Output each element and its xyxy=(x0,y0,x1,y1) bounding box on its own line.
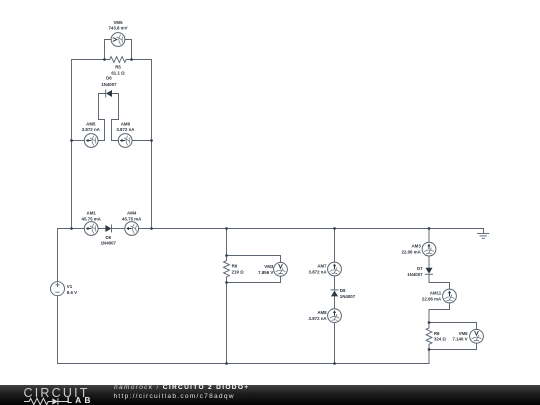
wire D8 to AM8 xyxy=(334,296,336,308)
svg-text:45.75 mA: 45.75 mA xyxy=(122,217,142,222)
logo LAB text xyxy=(67,396,94,405)
svg-text:61.1 Ω: 61.1 Ω xyxy=(111,71,125,76)
wire top loop left vertical xyxy=(72,60,105,229)
svg-text:8.6 V: 8.6 V xyxy=(67,290,77,295)
svg-text:3.872 nA: 3.872 nA xyxy=(82,127,101,132)
svg-text:VM6: VM6 xyxy=(459,331,469,336)
svg-text:D8: D8 xyxy=(340,288,346,293)
node top loop right xyxy=(150,227,153,230)
resistor R6 xyxy=(224,256,230,283)
node AM7 column top xyxy=(333,227,336,230)
svg-text:R8: R8 xyxy=(434,331,440,336)
footer info line 2 xyxy=(114,393,235,400)
node R8 bottom tap xyxy=(428,348,431,351)
logo resistor-diode mark xyxy=(24,397,69,405)
wire voltmeter VM6 bracket xyxy=(429,323,477,350)
wire main row right long segment xyxy=(139,229,484,234)
svg-text:7.146 V: 7.146 V xyxy=(452,337,467,342)
svg-text:AM7: AM7 xyxy=(317,264,327,269)
source V1 xyxy=(51,282,65,296)
resistor R8 xyxy=(426,323,432,350)
svg-text:743.8 mV: 743.8 mV xyxy=(108,26,127,31)
svg-text:R6: R6 xyxy=(232,263,238,268)
svg-text:3.872 nA: 3.872 nA xyxy=(116,127,135,132)
wire V1 to bottom row xyxy=(58,296,430,364)
svg-text:R5: R5 xyxy=(115,65,121,70)
node R5 left tap xyxy=(103,58,106,61)
node R6 column bottom xyxy=(225,362,228,365)
svg-text:AM4: AM4 xyxy=(127,211,137,216)
svg-text:22.06 mA: 22.06 mA xyxy=(402,250,422,255)
svg-text:AM11: AM11 xyxy=(430,291,442,296)
node R6 bottom tap xyxy=(225,281,228,284)
wire D6 to AM6 stub xyxy=(112,94,119,141)
svg-text:45.75 mA: 45.75 mA xyxy=(82,217,102,222)
node R6 top tap xyxy=(225,254,228,257)
op voltmeter VM3 xyxy=(274,262,288,276)
svg-text:3.872 nA: 3.872 nA xyxy=(309,270,328,275)
ammeter AM3 xyxy=(422,242,436,256)
logo CIRCUIT text xyxy=(24,386,90,400)
svg-text:22.06 mA: 22.06 mA xyxy=(422,297,442,302)
node top loop left xyxy=(70,227,73,230)
diode D6 xyxy=(99,90,119,97)
ammeter AM7 xyxy=(328,262,342,276)
wire AM8 to bottom row xyxy=(334,323,336,364)
wire AM3 column top xyxy=(428,229,430,243)
footer bar xyxy=(0,385,540,405)
svg-text:1N4007: 1N4007 xyxy=(340,294,356,299)
op voltmeter VM5 xyxy=(111,33,125,47)
wire V1 top lead xyxy=(57,229,59,282)
svg-text:219 Ω: 219 Ω xyxy=(232,269,245,274)
node AM7 column bottom xyxy=(333,362,336,365)
svg-text:D7: D7 xyxy=(417,266,423,271)
node R6 column top xyxy=(225,227,228,230)
ammeter AM11 xyxy=(443,289,457,303)
ammeter AM1 xyxy=(84,222,98,236)
wire AM7 column top xyxy=(334,229,336,263)
wire R6 column top xyxy=(226,229,228,256)
wire AM11 to R8 node jog xyxy=(429,303,450,323)
ammeter AM5 xyxy=(84,134,98,148)
ground xyxy=(478,234,490,239)
svg-text:1N4007: 1N4007 xyxy=(101,82,117,87)
wire mid row right xyxy=(132,140,151,142)
svg-text:AM1: AM1 xyxy=(87,211,97,216)
diode D8 xyxy=(331,290,338,297)
ammeter AM8 xyxy=(328,309,342,323)
diode D7 xyxy=(426,268,433,275)
svg-text:VM5: VM5 xyxy=(113,20,123,25)
svg-text:D5: D5 xyxy=(105,235,111,240)
node R5 right tap xyxy=(130,58,133,61)
wire voltmeter VM5 bracket xyxy=(105,40,132,60)
diode D5 xyxy=(105,225,111,232)
svg-text:D6: D6 xyxy=(106,76,112,81)
svg-text:VM3: VM3 xyxy=(264,264,274,269)
svg-text:AM8: AM8 xyxy=(317,310,327,315)
svg-text:V1: V1 xyxy=(67,284,73,289)
op voltmeter VM6 xyxy=(470,329,484,343)
wire mid row left xyxy=(72,140,85,142)
wire AM3 to D7 xyxy=(428,256,430,268)
node R8 top tap xyxy=(428,321,431,324)
wire top loop right vertical xyxy=(132,60,152,229)
node mid row right xyxy=(150,139,153,142)
wire D5 to AM4 xyxy=(112,228,125,230)
wire AM1 to D5 xyxy=(98,228,105,230)
ammeter AM4 xyxy=(125,222,139,236)
svg-text:3.872 nA: 3.872 nA xyxy=(309,316,328,321)
wire voltmeter VM3 bracket xyxy=(227,256,281,283)
svg-text:AM6: AM6 xyxy=(121,121,131,126)
wire AM5 to D6 stub xyxy=(98,94,104,141)
svg-text:AM3: AM3 xyxy=(412,244,422,249)
svg-text:AM5: AM5 xyxy=(86,121,96,126)
ammeter AM6 xyxy=(118,134,132,148)
svg-text:1N4007: 1N4007 xyxy=(101,241,117,246)
wire R6 column bottom xyxy=(226,283,228,364)
svg-text:324 Ω: 324 Ω xyxy=(434,337,447,342)
svg-text:1N4007: 1N4007 xyxy=(407,272,423,277)
node AM3 column top xyxy=(428,227,431,230)
wire D7 to AM11 jog xyxy=(429,274,450,289)
footer info line 1 xyxy=(114,384,249,391)
resistor R5 xyxy=(105,57,132,63)
wire AM7 to D8 xyxy=(334,276,336,290)
node mid row left xyxy=(70,139,73,142)
wire main row left segment xyxy=(58,228,85,230)
svg-text:7.856 V: 7.856 V xyxy=(258,270,273,275)
